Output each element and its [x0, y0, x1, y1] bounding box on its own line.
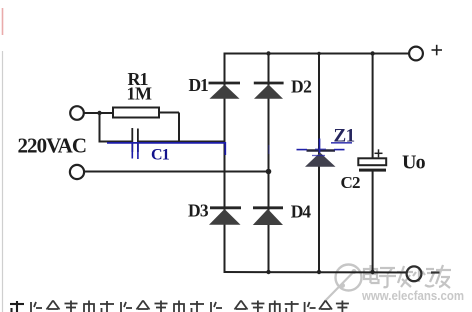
svg-text:www.elecfans.com: www.elecfans.com	[361, 288, 464, 303]
svg-text:D1: D1	[189, 75, 208, 95]
svg-text:D4: D4	[291, 202, 311, 222]
svg-text:C1: C1	[151, 147, 170, 164]
svg-text:Z1: Z1	[334, 126, 355, 147]
svg-text:D3: D3	[188, 201, 209, 221]
svg-text:1M: 1M	[127, 84, 153, 104]
svg-text:D2: D2	[291, 76, 311, 96]
svg-text:220VAC: 220VAC	[18, 134, 87, 158]
svg-text:Uo: Uo	[402, 152, 426, 174]
svg-text:C2: C2	[341, 173, 360, 192]
